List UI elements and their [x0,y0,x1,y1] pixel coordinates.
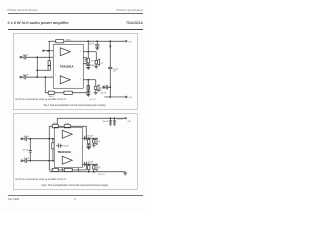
svg-text:2200 μF: 2200 μF [117,118,125,120]
svg-text:(1): (1) [98,141,101,143]
svg-text:100 nF: 100 nF [22,149,28,151]
svg-text:+: + [57,142,58,144]
svg-text:MGD128: MGD128 [89,99,96,101]
svg-text:680 Ω: 680 Ω [53,122,58,125]
svg-text:10 μF: 10 μF [113,69,119,71]
svg-text:1 kΩ: 1 kΩ [65,122,69,125]
svg-text:+: + [83,161,84,163]
svg-text:100 μF: 100 μF [63,146,68,148]
svg-text:(1): (1) [100,62,103,64]
svg-text:TDA1521A: TDA1521A [60,64,74,68]
svg-text:100 nF: 100 nF [96,90,102,92]
svg-text:220 nF: 220 nF [22,54,28,56]
svg-text:+VP: +VP [128,41,132,43]
svg-text:−VP: −VP [128,97,132,99]
svg-text:MGD129: MGD129 [98,174,105,176]
svg-text:680 Ω: 680 Ω [66,39,71,42]
svg-text:+: + [83,135,84,137]
svg-text:9: 9 [55,75,56,77]
svg-text:100 nF: 100 nF [89,44,95,46]
svg-text:6: 6 [80,78,81,80]
svg-text:1000 μF: 1000 μF [86,135,94,137]
svg-text:100 nF: 100 nF [102,121,108,123]
svg-text:63 V: 63 V [113,71,117,73]
svg-text:TDA1521A: TDA1521A [58,150,72,154]
svg-text:220 nF: 220 nF [23,158,29,160]
svg-text:1: 1 [55,56,56,58]
svg-text:+VP: +VP [127,121,131,123]
svg-text:100 nF: 100 nF [100,93,106,95]
svg-text:4: 4 [80,50,81,52]
svg-text:(1): (1) [98,167,101,169]
svg-text:680 Ω: 680 Ω [49,95,54,98]
svg-text:8 Ω2: 8 Ω2 [91,59,95,62]
svg-text:220 nF: 220 nF [23,136,29,138]
svg-text:220 nF: 220 nF [22,74,28,76]
svg-text:1000 μF: 1000 μF [86,161,94,163]
